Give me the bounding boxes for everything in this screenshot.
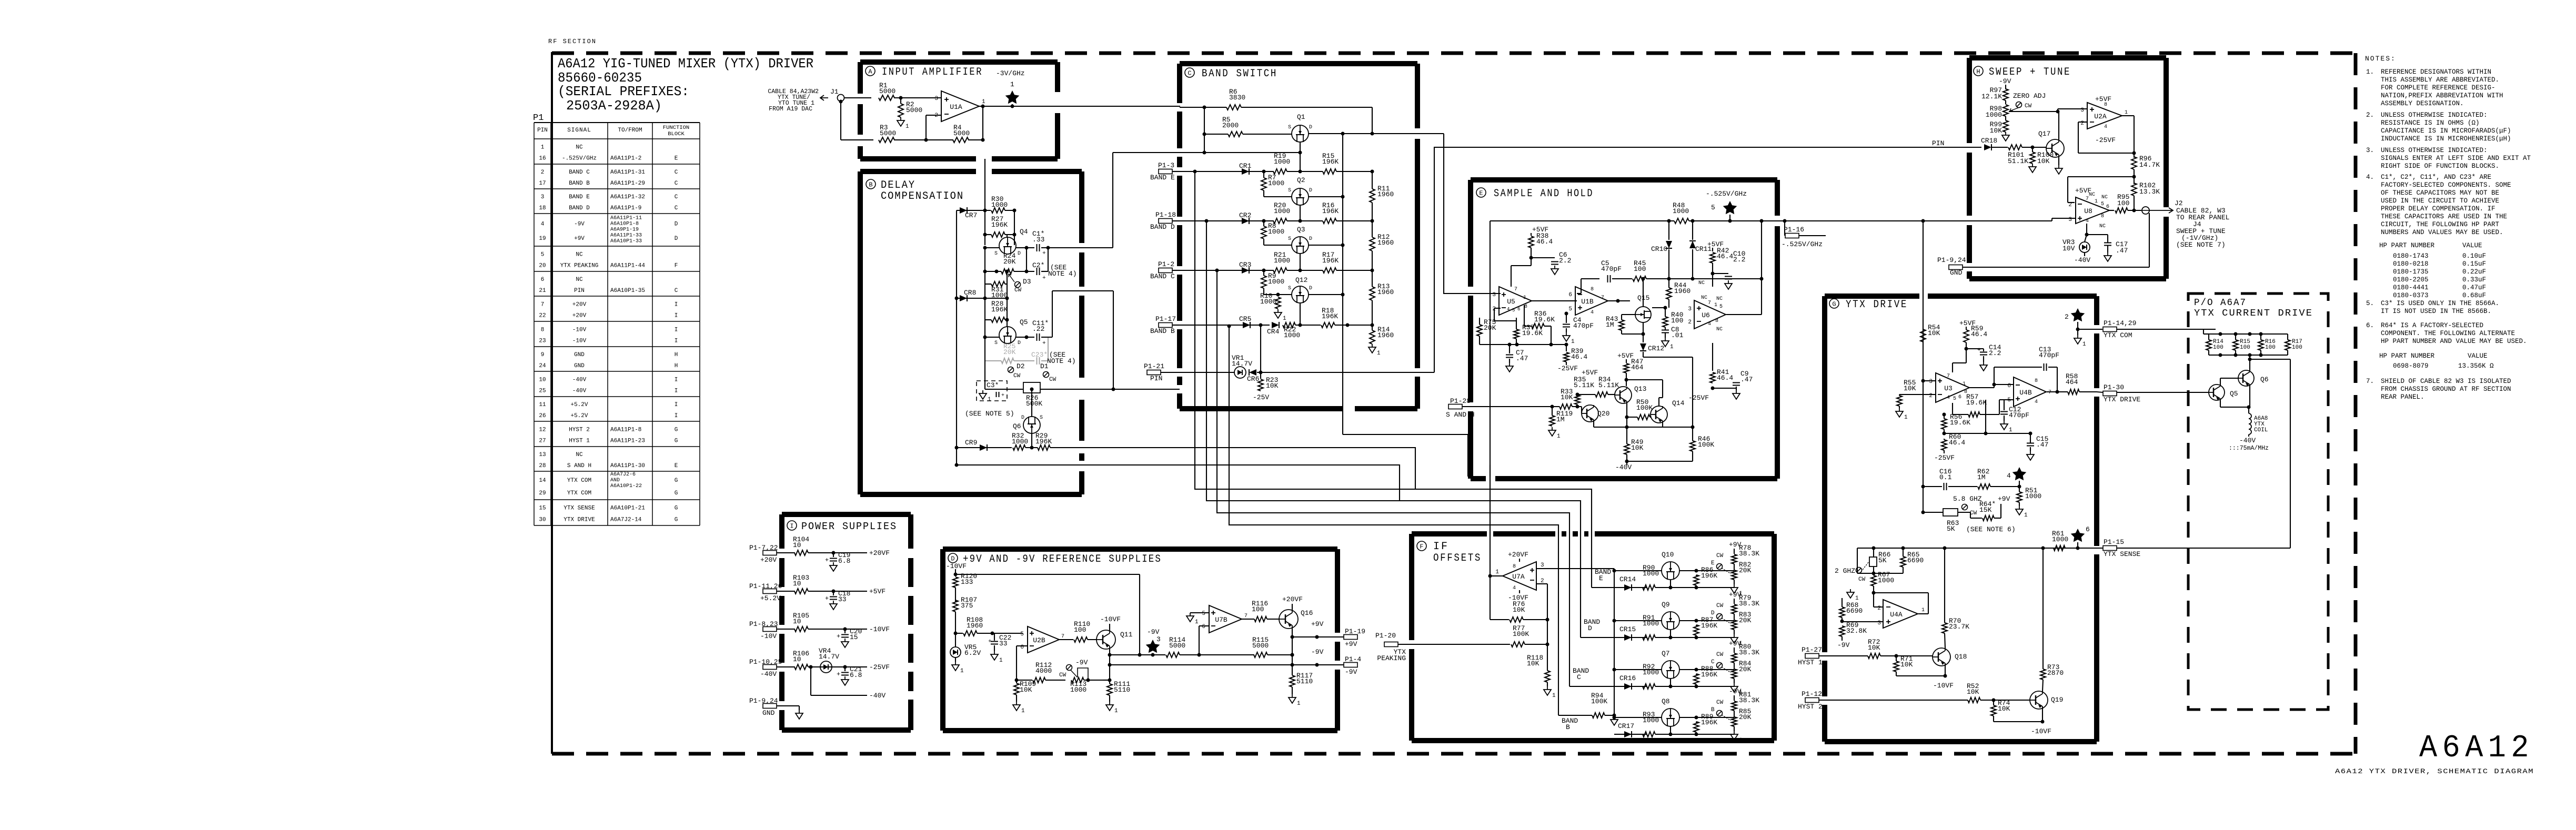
wire C1 C2 node column [1026,248,1027,271]
svg-text:Q17: Q17 [2038,130,2050,138]
wire U4A feedback [1918,613,1928,614]
svg-text:PIN: PIN [1150,374,1162,382]
svg-text:.47: .47 [2116,247,2128,255]
wire R4 to output node [968,139,983,140]
svg-text:196K: 196K [1701,622,1717,630]
wire Q2 drain [1309,196,1343,197]
svg-text:10: 10 [793,618,801,625]
function block A frame [860,59,1058,65]
inductor A6A8 YTX COIL [2248,407,2249,413]
svg-text:26: 26 [539,413,546,419]
svg-text:U8: U8 [2084,207,2092,215]
svg-text:+9V: +9V [1311,620,1324,628]
svg-text:3: 3 [2068,217,2072,223]
wire U7A output down to R76 [1490,576,1491,620]
svg-text:20K: 20K [1003,348,1016,356]
svg-text:P1-17: P1-17 [1155,315,1176,323]
wire rail to Q6 collector [2249,355,2250,370]
svg-text:+9V: +9V [1998,495,2010,503]
svg-text:J2: J2 [2175,199,2183,207]
svg-text:+5.2V: +5.2V [760,594,781,602]
svg-text:.22: .22 [1032,325,1044,333]
wire source column [1614,569,1615,715]
svg-text:-3V/GHz: -3V/GHz [996,69,1025,77]
wire drain bus down through bottom [1342,295,1343,434]
svg-text:YTX SENSE: YTX SENSE [563,505,595,512]
svg-text:2870: 2870 [2047,669,2064,677]
svg-text:R64* IS A FACTORY-SELECTED: R64* IS A FACTORY-SELECTED [2381,322,2483,329]
svg-text:A6A12 YTX DRIVER, SCHEMATIC DI: A6A12 YTX DRIVER, SCHEMATIC DIAGRAM [2335,768,2534,775]
wire Q6 gate to row [1031,433,1032,448]
svg-text:(SERIAL PREFIXES:: (SERIAL PREFIXES: [558,84,689,99]
svg-text:S: S [994,340,998,346]
feedback wire to U1A pin2 [925,115,927,140]
svg-text:NC: NC [576,251,583,258]
svg-text:9: 9 [541,352,545,358]
wire R59 to U3 [1953,362,1966,363]
svg-text:14.7V: 14.7V [819,653,839,661]
wire R96 tap to U8 pin2 loop [2068,176,2134,177]
svg-text:5000: 5000 [1252,642,1269,650]
band drop wire B [1558,532,1559,715]
svg-text:C: C [1711,659,1715,665]
svg-text:1: 1 [1297,701,1301,707]
wire C1 gate route from B to C [1082,247,1113,248]
svg-text:CW: CW [1049,377,1056,383]
svg-text:Q6: Q6 [2260,376,2269,383]
svg-text:CR3: CR3 [1239,261,1251,269]
svg-text:8: 8 [1591,287,1594,292]
wire -40V branch [810,667,811,695]
svg-text:100: 100 [2213,345,2223,351]
svg-text:REFERENCE DESIGNATORS WITHIN: REFERENCE DESIGNATORS WITHIN [2381,68,2491,76]
svg-text:Q5: Q5 [1020,318,1028,326]
svg-text:1: 1 [960,668,964,674]
wire gate row to pot [1696,686,1734,687]
svg-text:6: 6 [2086,525,2090,533]
svg-text:1: 1 [905,124,909,130]
svg-text:UNLESS OTHERWISE INDICATED:: UNLESS OTHERWISE INDICATED: [2381,112,2488,119]
wire Q17 collector [2058,112,2059,139]
svg-text:FROM CHASSIS GROUND AT RF SECT: FROM CHASSIS GROUND AT RF SECTION [2381,386,2511,393]
wire Q10 drain [1679,570,1696,571]
ground below R82 [1734,584,1735,588]
wire GND to J2 shield [1963,267,2149,268]
svg-text:GND: GND [574,363,585,369]
wire U7A top feed [1490,477,1491,532]
svg-text:CW: CW [1716,652,1724,658]
block B title circle [866,179,876,189]
svg-text:5.8 GHZ: 5.8 GHZ [1953,495,1982,503]
outer dashed border right [2354,53,2358,754]
svg-text:CR16: CR16 [1619,674,1636,682]
wire P1-7,22 row [777,552,795,553]
wire U7A output loop [1490,575,1503,576]
svg-text:TO REAR PANEL: TO REAR PANEL [2176,214,2229,221]
svg-text:D: D [1018,340,1021,346]
svg-text:RF SECTION: RF SECTION [548,38,597,45]
capacitor C19 [833,553,834,557]
svg-text:3.: 3. [2366,147,2374,154]
svg-text:1: 1 [988,397,991,403]
adjust R63 [1962,504,1968,510]
svg-text:196K: 196K [1701,718,1717,726]
wire P1-8,23 row [777,629,795,630]
wire P1-30 from R58 [2097,392,2103,392]
svg-text:3: 3 [1492,292,1496,298]
svg-text:1: 1 [1523,295,1526,301]
wire U4B output [2047,391,2068,392]
svg-text:13.3K: 13.3K [2139,188,2160,196]
wire U3 minus to R55 [1899,394,1936,395]
svg-text:FACTORY-SELECTED COMPONENTS. S: FACTORY-SELECTED COMPONENTS. SOME [2381,181,2511,189]
capacitor C3* dashed box [977,381,1007,401]
svg-text:1000: 1000 [1986,111,2002,119]
svg-text:NC: NC [1716,296,1723,302]
svg-text:I: I [675,413,678,419]
wire GND stub [777,705,799,706]
svg-text:U7A: U7A [1512,573,1525,581]
wire U6 out vertical to top wire [1761,221,1762,315]
connector J2 circle [2142,207,2149,214]
function block I frame [782,512,911,517]
svg-text:10K: 10K [1631,444,1644,452]
svg-text:1: 1 [1021,708,1025,714]
wire U8 output through R95 [2109,210,2114,211]
svg-text:100: 100 [1671,317,1683,325]
svg-text:D: D [1588,624,1592,632]
svg-text:7: 7 [2048,390,2051,396]
function block G frame [1825,293,1919,299]
svg-text:1000: 1000 [1274,257,1290,265]
svg-text:10K: 10K [1998,705,2010,713]
svg-text:1M: 1M [1556,416,1565,423]
svg-text:.01: .01 [1671,331,1684,339]
svg-text:100: 100 [2292,345,2302,351]
svg-text:-.525V/GHz: -.525V/GHz [562,156,597,162]
ground below R14 [1372,344,1373,347]
svg-text:19.6K: 19.6K [1534,316,1555,323]
svg-text:I: I [790,523,793,530]
svg-text:20K: 20K [1484,324,1496,332]
block F title circle [1417,541,1426,551]
wire -9V row to P1-4 [1292,664,1344,665]
wire Q5 collector to Q6 base [2220,378,2221,385]
wire R26 route to C [1082,389,1180,390]
wire Q5 source row [985,337,999,338]
svg-text:2: 2 [1688,319,1692,326]
svg-text:6: 6 [1958,394,1961,400]
svg-text:+5.2V: +5.2V [570,413,588,419]
svg-text:6: 6 [1020,644,1024,651]
band drop wire C [1569,532,1570,686]
wire Q3 source [1264,245,1292,246]
svg-text:6: 6 [541,277,545,283]
wire C1 gate feed [1180,152,1300,153]
svg-text:-9V: -9V [574,221,585,228]
svg-text:2: 2 [541,169,545,176]
wire Q8 gate [1670,726,1671,734]
svg-text:1: 1 [1571,339,1575,345]
svg-text:+5VF: +5VF [2095,95,2111,103]
svg-text:-10V: -10V [760,632,777,640]
svg-text:+: + [825,556,829,564]
svg-text:10K: 10K [1020,686,1032,694]
svg-text:C: C [675,169,678,176]
wire Q1 drain to exit [1309,133,1417,134]
wire R3 to R4 [894,139,953,140]
pot R25 (faded) [985,337,1048,365]
svg-text:POWER SUPPLIES: POWER SUPPLIES [801,521,897,532]
svg-text:5K: 5K [1947,525,1955,533]
outer dashed border top [552,52,2356,55]
svg-text:SWEEP + TUNE: SWEEP + TUNE [1989,66,2071,78]
svg-text:10K: 10K [1868,644,1880,652]
wire U7B pin6 loop [1199,625,1209,626]
svg-text:4: 4 [2035,399,2038,405]
svg-text:2 GHZ: 2 GHZ [1835,567,1855,575]
svg-text::::75mA/MHz: :::75mA/MHz [2229,445,2269,452]
svg-text:10K: 10K [1527,660,1539,667]
svg-text:1: 1 [2095,199,2098,205]
svg-text:1960: 1960 [1674,287,1690,295]
svg-text:A6A10P1-33: A6A10P1-33 [610,238,642,244]
svg-text:D: D [1711,610,1715,616]
svg-text:CR15: CR15 [1619,625,1636,633]
svg-text:DELAY: DELAY [881,179,915,191]
svg-text:CW: CW [1716,700,1724,706]
drain bus vertical [1342,134,1343,295]
svg-text:196K: 196K [991,221,1008,229]
svg-text:10K: 10K [2037,157,2050,165]
svg-text:38.3K: 38.3K [1739,550,1759,558]
svg-text:C3*: C3* [987,381,999,389]
svg-text:7.: 7. [2366,378,2374,385]
svg-text:-10V: -10V [572,338,587,345]
ground below R84 [1734,683,1735,686]
svg-text:C1*, C2*, C11*, AND C23* ARE: C1*, C2*, C11*, AND C23* ARE [2381,174,2491,181]
svg-text:CR7: CR7 [965,211,977,219]
svg-text:1: 1 [999,657,1003,664]
svg-text:IF: IF [1433,541,1449,553]
svg-text:1000: 1000 [1643,669,1659,676]
diode CR3 [1180,270,1274,271]
svg-text:A: A [868,68,872,76]
svg-text:CW: CW [1858,576,1866,583]
svg-text:-25VF: -25VF [869,663,890,671]
wire -3V/GHz through R6 [1180,107,1226,108]
svg-text:CR10: CR10 [1651,245,1667,253]
svg-text:E: E [1479,190,1483,197]
op-amp U7B [1209,605,1242,633]
svg-text:S: S [994,251,998,257]
svg-text:NC: NC [2101,195,2108,200]
svg-text:196K: 196K [1322,312,1338,320]
svg-text:CR4: CR4 [1267,328,1280,336]
svg-text:BLOCK: BLOCK [668,131,685,137]
svg-text:NUMBERS AND VALUES MAY BE USED: NUMBERS AND VALUES MAY BE USED. [2381,229,2503,236]
wire Q15 bottom [1643,322,1644,342]
wire Q16 emitter +9V row [1292,629,1293,637]
wire U4A pin2 [1874,606,1884,608]
wire CR9 row exit [1050,447,1082,448]
svg-text:D: D [675,236,678,242]
left bus wire [956,210,957,465]
wire B bottom long route [1082,465,1400,501]
svg-text:P1-21: P1-21 [1144,362,1164,370]
svg-text:15: 15 [539,505,546,512]
svg-text:2: 2 [2068,202,2072,208]
svg-text:A6A11P1-2: A6A11P1-2 [610,156,641,162]
svg-text:464: 464 [1631,363,1644,371]
svg-text:7: 7 [1601,295,1604,301]
function block B frame [860,169,976,174]
svg-text:-9V: -9V [1345,668,1357,676]
svg-text:196K: 196K [1035,438,1052,446]
svg-text:470pF: 470pF [2009,411,2029,419]
wire Q11 emitter to -9V node [1109,649,1110,680]
svg-text:1: 1 [2009,427,2012,433]
svg-text:2: 2 [2080,120,2084,127]
svg-text:10K: 10K [1266,382,1279,390]
wire Q13 Q20 emitters [1626,403,1627,427]
svg-text:A6A11P1-31: A6A11P1-31 [610,169,645,176]
svg-text:-9V: -9V [1837,641,1850,649]
svg-text:+20V: +20V [572,313,587,319]
svg-text:5: 5 [1512,308,1515,313]
wire +9V to R115 node [1292,637,1293,655]
block A title circle [866,66,875,76]
svg-text:FOR COMPLETE REFERENCE DESIG-: FOR COMPLETE REFERENCE DESIG- [2381,84,2495,92]
svg-text:P1-12: P1-12 [1802,690,1822,698]
svg-text:NATION,PREFIX ABBREVIATION WIT: NATION,PREFIX ABBREVIATION WITH [2381,92,2503,99]
svg-text:2: 2 [934,113,938,119]
wire gate row to pot [1696,587,1734,588]
wire PIN long route to H [1434,147,1915,372]
wire Q15 top [1643,279,1644,307]
svg-text:G: G [1832,301,1836,308]
wire Q10 source row [1614,570,1662,571]
svg-text:2: 2 [2065,313,2069,321]
svg-text:D: D [675,221,678,228]
diode CR5 row [1180,325,1270,326]
svg-text:1: 1 [1670,344,1674,350]
svg-text:1M: 1M [1977,473,1986,481]
svg-text:1: 1 [1921,608,1925,613]
svg-text:6690: 6690 [1846,607,1863,615]
svg-text:196K: 196K [1322,158,1339,166]
block D title circle [948,553,958,563]
svg-text:5: 5 [1719,304,1723,310]
ground below R111 [1109,702,1110,705]
svg-text:NC: NC [576,277,583,283]
svg-text:196K: 196K [1701,572,1717,580]
svg-text:0.47uF: 0.47uF [2462,284,2486,291]
wire Q12 drain [1309,294,1343,295]
wire J1 down to R3 row [840,102,841,140]
wire U7A pin3 [1537,568,1614,569]
svg-text:0698-8079: 0698-8079 [2393,362,2429,370]
svg-text:THIS ASSEMBLY ARE ABBREVIATED.: THIS ASSEMBLY ARE ABBREVIATED. [2381,76,2499,84]
svg-text:REAR PANEL.: REAR PANEL. [2381,393,2424,401]
diode CR11 [1692,221,1693,240]
svg-text:6.8: 6.8 [850,671,862,679]
wire P1-11,26 row [777,591,795,592]
svg-text:-40V: -40V [2074,256,2090,264]
svg-text:.47: .47 [2036,441,2048,449]
svg-text:2: 2 [1929,393,1933,399]
svg-text:2000: 2000 [1222,122,1239,129]
svg-text:7: 7 [1061,634,1064,640]
svg-text:10V: 10V [2062,245,2075,252]
svg-text:I: I [675,402,678,408]
svg-text:S: S [1288,286,1291,291]
svg-text:30: 30 [539,517,546,523]
op-amp U8 [2076,197,2109,224]
svg-text:Q11: Q11 [1120,631,1133,639]
svg-text:10: 10 [793,655,801,663]
svg-text:46.4: 46.4 [1717,374,1733,382]
svg-text:6: 6 [1517,307,1520,312]
band drop wire E [1591,532,1592,588]
svg-text:1000: 1000 [1878,576,1894,584]
svg-text:D: D [1021,415,1024,421]
diode CR14 [1592,587,1647,588]
svg-text:-.525V/GHz: -.525V/GHz [1706,190,1747,198]
ground above R68 [1850,589,1851,592]
rail wire 1042 [1857,548,2068,549]
svg-text:0.33uF: 0.33uF [2462,276,2486,284]
wire Q1 gate [1300,142,1301,171]
svg-text:COMPENSATION: COMPENSATION [881,190,964,203]
ground symbol block I [799,710,800,713]
svg-text:-10VF: -10VF [869,625,890,633]
svg-text:-10VF: -10VF [1100,615,1121,623]
svg-text:SIGNALS ENTER AT LEFT SIDE AND: SIGNALS ENTER AT LEFT SIDE AND EXIT AT [2381,155,2531,162]
wire YTX COM into rail [2117,329,2203,330]
svg-text:HYST 2: HYST 2 [1798,703,1823,711]
svg-text:CAPACITANCE IS IN MICROFARADS(: CAPACITANCE IS IN MICROFARADS(μF) [2381,127,2511,135]
pot R63 [1943,509,1958,516]
svg-text:28: 28 [539,463,546,469]
adjust D3 [1015,282,1021,288]
svg-text:+9V: +9V [574,236,585,242]
svg-text:I: I [675,313,678,319]
svg-text:NC: NC [1716,327,1723,332]
svg-text:22: 22 [539,313,546,319]
svg-text:P1-18: P1-18 [1155,211,1176,219]
svg-text:D: D [1309,236,1312,242]
op-amp U3 [1936,373,1969,402]
svg-text:CR2: CR2 [1239,211,1251,219]
svg-text:INPUT AMPLIFIER: INPUT AMPLIFIER [882,66,983,78]
diode CR7 [957,210,991,211]
svg-text:7: 7 [541,301,545,308]
svg-text:+20V: +20V [760,556,777,564]
svg-text:1: 1 [1495,569,1499,575]
svg-text:INDUCTANCE IS IN MICROHENRIES(: INDUCTANCE IS IN MICROHENRIES(μH) [2381,135,2511,143]
svg-text:196K: 196K [991,306,1008,313]
svg-text:1.: 1. [2366,68,2374,76]
svg-text:P1-15: P1-15 [2104,538,2124,546]
ground below C20 [844,639,846,642]
svg-text:YTX SENSE: YTX SENSE [2104,550,2140,558]
wire YTX SENSE long [2117,548,2290,549]
svg-text:S: S [1288,236,1291,242]
top wire -.525V/GHz [1490,220,1674,221]
svg-text:1000: 1000 [1673,207,1689,215]
band drop wire D [1580,532,1581,637]
